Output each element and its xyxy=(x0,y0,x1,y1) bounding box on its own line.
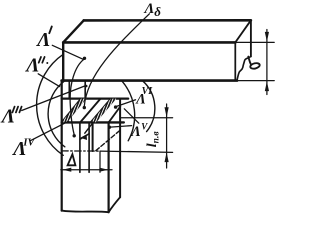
dimension lpv line xyxy=(166,104,168,168)
arrowhead to gap wall xyxy=(80,134,87,140)
tenon 2 hatched side strip xyxy=(91,99,117,123)
dimension delta line xyxy=(61,169,112,171)
extension line right of gap xyxy=(99,151,101,172)
dimension b line xyxy=(266,30,268,95)
gap wall line v1 xyxy=(79,122,81,172)
beam end right edge xyxy=(250,20,252,56)
beam end break line xyxy=(237,56,251,80)
tenon 2 left edge xyxy=(91,99,111,123)
leader dot on post front face xyxy=(73,134,76,137)
tenon 1 top face right edge xyxy=(80,99,100,123)
post top-right oblique edge xyxy=(109,107,121,123)
dimension b arrow bottom xyxy=(265,81,269,91)
leader dot on tenon P1 xyxy=(83,106,86,109)
outer left arc xyxy=(37,54,64,155)
leader lambda-VI xyxy=(117,100,136,107)
beam top-left oblique edge xyxy=(63,20,83,42)
leader with arrow to gap wall xyxy=(85,124,92,133)
svg-text:Λ: Λ xyxy=(35,29,50,51)
post back-right edge xyxy=(119,99,121,198)
dimension b arrow top xyxy=(265,32,269,42)
dimension b extension top xyxy=(235,41,274,43)
gap wall line v3 xyxy=(92,122,94,151)
svg-text:Λ: Λ xyxy=(24,55,39,77)
leader lambda-prime xyxy=(52,45,83,59)
leader lambda-delta curve xyxy=(84,14,149,106)
dimension label delta xyxy=(68,154,76,165)
svg-text:Λ: Λ xyxy=(144,1,155,17)
post shoulder line xyxy=(62,121,124,123)
leader dot on band xyxy=(85,85,88,88)
beam left edge xyxy=(62,42,64,80)
leader dot on beam face xyxy=(83,57,86,60)
svg-text:IV: IV xyxy=(22,137,35,148)
leader lambda-3prime xyxy=(22,86,86,111)
hidden edge dashed diagonal xyxy=(96,130,120,150)
dimension lpv arrow top xyxy=(165,107,169,117)
dimension label b xyxy=(250,62,261,69)
dimension lpv extension top xyxy=(121,117,173,119)
post left edge xyxy=(61,81,63,211)
dimension lpv arrow bottom xyxy=(165,152,169,162)
leader lambda-2prime xyxy=(38,74,59,87)
gap wall line v2 xyxy=(88,122,90,172)
beam end slant edge xyxy=(235,20,251,42)
beam top edge xyxy=(63,41,235,44)
dimension delta arrow right xyxy=(99,168,108,172)
svg-text:V: V xyxy=(141,122,148,132)
dimension b extension bottom xyxy=(237,80,274,82)
post bottom break line xyxy=(62,211,109,213)
leader dot on tenon P2 xyxy=(114,105,117,108)
diagonal line near lambda-V xyxy=(124,109,139,123)
inner right arc xyxy=(122,81,135,141)
leader lambda-V xyxy=(110,126,131,128)
leader lambda-IV xyxy=(31,121,69,140)
svg-text:VI: VI xyxy=(142,86,154,97)
inner left arc xyxy=(48,81,65,147)
axis line solid part / dimension reference xyxy=(100,151,173,152)
post band bottom edge xyxy=(62,97,129,99)
axis dash-dot line xyxy=(62,150,100,152)
outer right arc xyxy=(143,81,155,132)
band finger edge B xyxy=(84,81,86,99)
dimension delta arrow left xyxy=(62,168,71,172)
post top-left oblique edge xyxy=(62,99,81,123)
leader curve from beam face to post face xyxy=(70,59,84,134)
svg-text:δ: δ xyxy=(154,4,161,19)
svg-text:Λ: Λ xyxy=(130,124,141,140)
post side bottom slant xyxy=(109,197,121,212)
post front-right edge xyxy=(107,122,109,212)
beam front-right edge xyxy=(234,42,236,80)
tenon 1 hatched side strip xyxy=(62,99,87,123)
band finger edge A xyxy=(68,81,70,99)
gap bottom diagonal xyxy=(80,134,89,140)
leader dot on post side face xyxy=(108,126,111,129)
beam back-top edge xyxy=(84,19,251,22)
beam bottom edge xyxy=(62,79,237,82)
